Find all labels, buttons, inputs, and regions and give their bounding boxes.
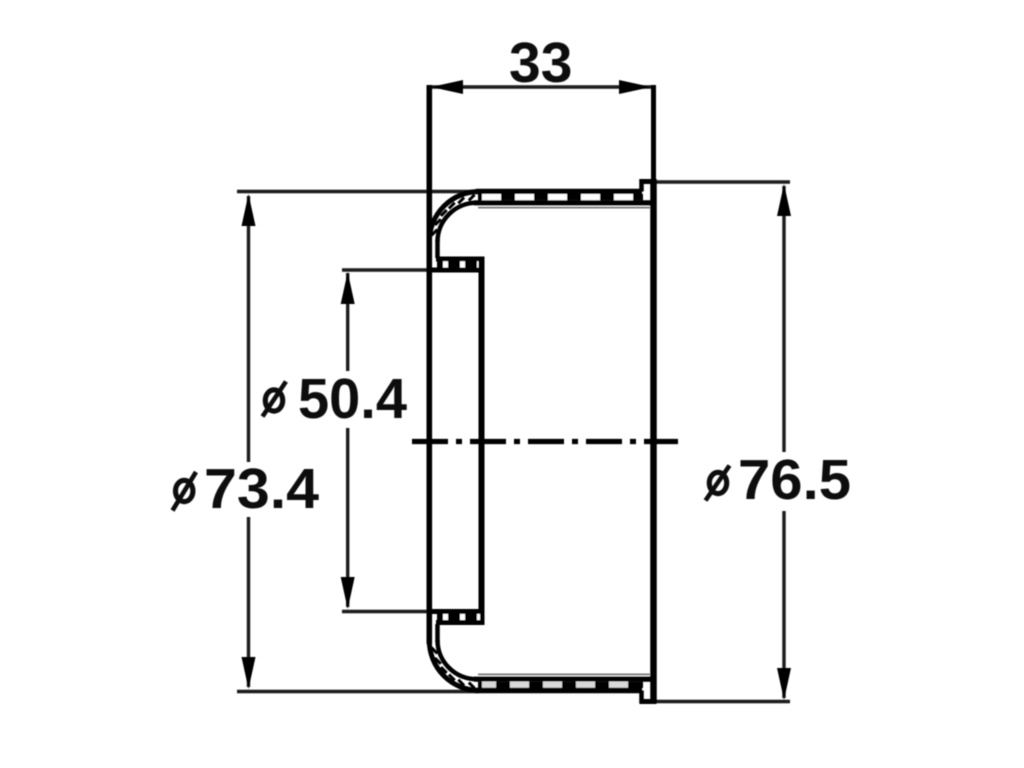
svg-text:50.4: 50.4 — [298, 367, 407, 431]
svg-text:76.5: 76.5 — [738, 448, 851, 512]
svg-text:73.4: 73.4 — [204, 457, 319, 521]
